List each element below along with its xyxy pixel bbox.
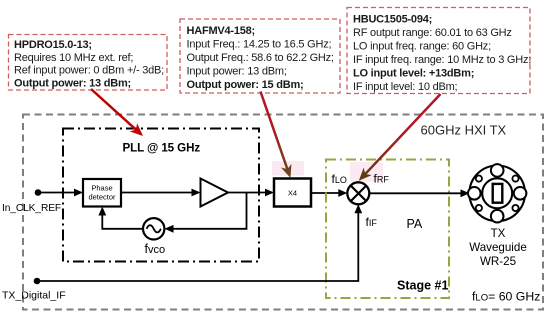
svg-text:fIF: fIF — [366, 215, 378, 229]
oscillator fvco — [143, 218, 164, 239]
callout box HPDRO15.0-13 — [9, 35, 168, 91]
red arrow HBUC to mixer — [359, 94, 441, 181]
svg-text:Waveguide: Waveguide — [469, 241, 527, 254]
svg-text:WR-25: WR-25 — [480, 255, 516, 268]
stage 1 enclosure — [326, 160, 449, 299]
wire mixer to waveguide — [369, 189, 469, 197]
svg-text:Output power: 15 dBm;: Output power: 15 dBm; — [187, 79, 304, 91]
svg-text:HBUC1505-094;: HBUC1505-094; — [353, 14, 432, 26]
svg-text:detector: detector — [88, 193, 116, 202]
wire VCO to phase detector — [98, 207, 143, 229]
highlight glow near mixer — [350, 162, 383, 182]
red arrow HAFMV to X4 — [261, 92, 292, 179]
svg-text:60GHz HXI TX: 60GHz HXI TX — [421, 123, 507, 138]
svg-text:fLO= 60 GHz: fLO= 60 GHz — [472, 290, 540, 304]
highlight glow near X4 — [272, 161, 304, 176]
svg-text:In_CLK_REF: In_CLK_REF — [2, 203, 61, 214]
node TX_Digital_IF — [34, 278, 41, 285]
PLL enclosure — [63, 129, 259, 262]
svg-text:TX_Digital_IF: TX_Digital_IF — [2, 290, 66, 302]
svg-text:Output power: 13 dBm;: Output power: 13 dBm; — [14, 77, 131, 89]
wire TX_Digital_IF to mixer — [37, 204, 362, 281]
outer enclosure box — [23, 115, 543, 310]
wire feedback branch to VCO — [165, 193, 247, 233]
amplifier A1 — [201, 179, 229, 207]
svg-text:HAFMV4-158;: HAFMV4-158; — [187, 25, 255, 37]
waveguide flange TX — [468, 164, 526, 222]
svg-text:Stage #1: Stage #1 — [397, 279, 448, 293]
svg-text:fLO: fLO — [332, 172, 347, 186]
svg-text:Ref input power: 0 dBm +/- 3dB: Ref input power: 0 dBm +/- 3dB; — [14, 65, 164, 77]
svg-text:fvco: fvco — [145, 242, 166, 256]
label TX Waveguide WR-25 — [469, 227, 527, 268]
svg-text:PLL @ 15 GHz: PLL @ 15 GHz — [123, 142, 201, 155]
svg-text:Input power: 13 dBm;: Input power: 13 dBm; — [187, 66, 287, 78]
callout box HBUC1505-094 — [347, 8, 531, 94]
svg-text:Requires 10 MHz ext. ref;: Requires 10 MHz ext. ref; — [14, 52, 133, 64]
wire In_CLK_REF to phase detector — [38, 189, 83, 197]
svg-text:Output Freq.: 58.6 to 62.2 GHz: Output Freq.: 58.6 to 62.2 GHz; — [187, 52, 334, 64]
wire X4 to mixer — [311, 189, 347, 197]
svg-text:Phase: Phase — [91, 184, 112, 193]
svg-text:fRF: fRF — [374, 172, 390, 186]
callout box HAFMV4-158 — [180, 19, 340, 93]
svg-text:IF input level: 10 dBm;: IF input level: 10 dBm; — [353, 81, 458, 93]
phase detector — [83, 179, 121, 207]
wire phase detector to amplifier — [121, 189, 201, 197]
svg-text:IF input freq. range: 10 MHz t: IF input freq. range: 10 MHz to 3 GHz; — [353, 54, 531, 66]
node In_CLK_REF — [35, 189, 42, 196]
svg-text:X4: X4 — [288, 189, 297, 198]
multiplier X4 — [274, 179, 311, 207]
svg-text:LO input freq. range: 60 GHz;: LO input freq. range: 60 GHz; — [353, 41, 491, 53]
svg-text:Input Freq.: 14.25 to 16.5 GHz: Input Freq.: 14.25 to 16.5 GHz; — [187, 39, 332, 51]
svg-text:LO input level: +13dBm;: LO input level: +13dBm; — [353, 68, 474, 80]
svg-text:PA: PA — [407, 217, 423, 231]
svg-text:RF output range: 60.01 to 63 G: RF output range: 60.01 to 63 GHz — [353, 27, 512, 39]
red arrow HPDRO to PLL — [91, 89, 143, 136]
svg-text:TX: TX — [491, 227, 506, 240]
wire amplifier to X4 — [228, 189, 274, 197]
svg-text:HPDRO15.0-13;: HPDRO15.0-13; — [14, 39, 92, 51]
mixer — [347, 182, 369, 204]
